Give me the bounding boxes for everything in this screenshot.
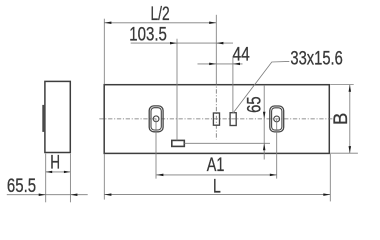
dimension B arrow up: [349, 85, 352, 92]
dimension 103.5 arrow left: [170, 42, 177, 45]
dimension 103.5 arrow right: [216, 42, 223, 45]
leader 33x15.6: [233, 61, 289, 113]
slot 2 inner: [272, 108, 282, 130]
dimension 44 extension: [232, 58, 234, 113]
svg-text:L/2: L/2: [151, 4, 170, 25]
slot 2 circle: [274, 116, 280, 122]
dimension L/2 extension left: [103, 19, 105, 85]
hole rect 2: [230, 113, 236, 126]
svg-text:103.5: 103.5: [129, 24, 167, 45]
dimension L extension left: [103, 154, 105, 200]
dimension L/2 line: [104, 22, 216, 24]
vertical centerline solid upper: [215, 15, 217, 81]
dimension 65.5 line: [7, 194, 88, 196]
dimension 44 arrow right: [233, 63, 240, 66]
side view body: [45, 81, 70, 152]
horizontal centerline: [99, 118, 334, 120]
dimension 103.5 extension: [176, 39, 178, 141]
dimension L arrow left: [104, 193, 111, 196]
svg-text:65: 65: [245, 96, 266, 113]
slot 1 outer: [149, 106, 163, 132]
svg-text:L: L: [213, 176, 221, 197]
dimension 65 arrow down: [263, 112, 266, 119]
slot 1 circle: [153, 116, 159, 122]
dimension A1 arrow right: [270, 174, 277, 177]
dimension H arrow right: [64, 171, 71, 173]
dimension B extension top: [330, 84, 354, 86]
dimension A1 arrow left: [156, 174, 163, 177]
dimension A1 line: [156, 174, 276, 176]
dimension A1 extension right: [276, 119, 278, 178]
svg-text:H: H: [50, 152, 60, 173]
extension line 65.5/H right: [69, 154, 71, 203]
svg-text:65.5: 65.5: [7, 176, 36, 197]
dimension 44 line: [198, 63, 243, 65]
svg-text:44: 44: [233, 44, 251, 65]
dimension A1 extension left: [155, 119, 157, 178]
small box: [172, 140, 185, 146]
slot 1 inner: [151, 108, 161, 130]
svg-text:33x15.6: 33x15.6: [290, 49, 342, 70]
dimension L extension right: [329, 154, 331, 202]
hole rect 1: [213, 113, 219, 125]
dimension 44 arrow left: [209, 63, 216, 66]
feature line from box: [184, 142, 270, 144]
side view clip (dark protrusion): [42, 105, 45, 132]
slot 2 outer: [270, 106, 284, 132]
vertical centerline dashdot: [215, 81, 217, 140]
svg-text:B: B: [331, 113, 352, 125]
dimension 65.5 arrow left: [39, 193, 46, 196]
dimension 65 arrow up: [263, 143, 266, 150]
extension line 65.5/H left: [45, 154, 47, 203]
dimension H arrow left: [46, 171, 53, 173]
dimension L/2 arrow left: [104, 22, 111, 25]
dimension L/2 arrow right: [209, 22, 216, 25]
dimension B arrow down: [349, 146, 352, 153]
dimension 65 line: [263, 85, 265, 160]
dimension L arrow right: [323, 193, 330, 196]
dimension H line: [46, 171, 71, 173]
dimension L line: [104, 194, 330, 196]
dimension B extension bottom: [330, 152, 358, 154]
dimension 65.5 arrow right: [70, 193, 77, 196]
dimension 103.5 line: [131, 42, 233, 44]
main part outline: [104, 85, 329, 154]
dimension B line: [349, 85, 351, 153]
svg-text:A1: A1: [207, 155, 225, 176]
